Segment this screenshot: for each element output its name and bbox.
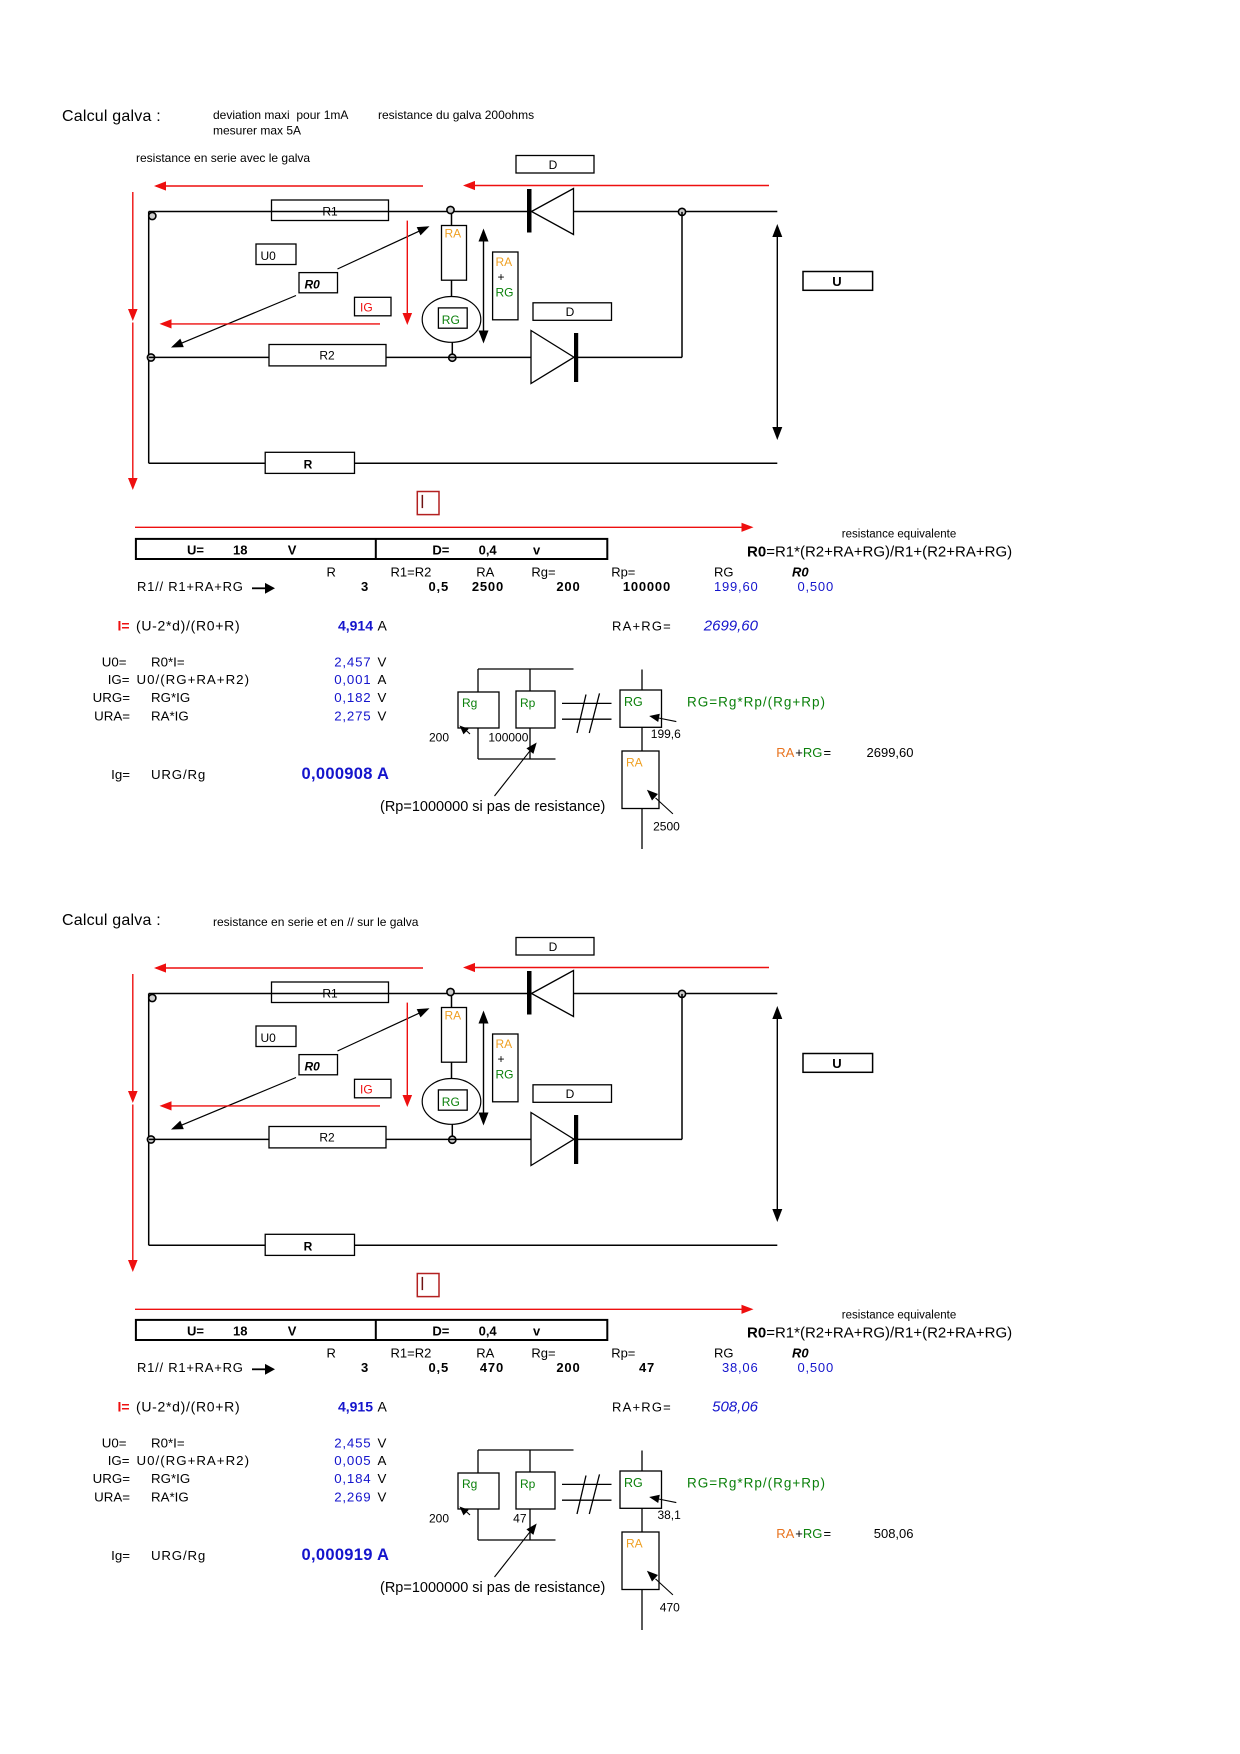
red arrow IG vertical — [406, 1003, 408, 1096]
node top-center — [447, 206, 454, 213]
long pointer to Rp — [495, 748, 533, 796]
diode D1 cathode bar — [527, 189, 532, 233]
svg-text:Rp: Rp — [520, 1477, 536, 1491]
parallel symbol — [562, 702, 612, 704]
svg-text:RG: RG — [714, 1346, 734, 1361]
red current arrow top-left — [156, 967, 423, 969]
svg-text:Rp: Rp — [520, 696, 536, 710]
red current arrow bottom — [135, 1308, 750, 1310]
svg-text:Ig=: Ig= — [111, 767, 130, 782]
svg-text:0,4: 0,4 — [479, 543, 498, 558]
svg-text:deviation maxi pour 1mA: deviation maxi pour 1mA — [213, 108, 348, 122]
red current arrow top-left — [156, 185, 423, 187]
svg-text:URG=: URG= — [93, 1471, 131, 1486]
svg-text:URG=: URG= — [93, 690, 131, 705]
resistor Rp — [516, 1472, 555, 1509]
svg-text:U0: U0 — [261, 249, 277, 263]
svg-text:v: v — [533, 1324, 541, 1339]
node left-mid — [147, 354, 154, 361]
svg-text:R0: R0 — [792, 1346, 809, 1361]
svg-text:0,005: 0,005 — [334, 1453, 371, 1468]
svg-text:RG: RG — [624, 695, 643, 709]
resistor RA — [442, 226, 467, 281]
label box I red — [417, 1274, 439, 1297]
svg-text:RA+RG=: RA+RG= — [612, 619, 672, 634]
measure arrow U — [776, 1009, 778, 1219]
label box D bottom — [533, 1085, 612, 1103]
svg-text:I=: I= — [118, 1399, 130, 1415]
svg-text:2699,60: 2699,60 — [867, 745, 914, 760]
label box U — [803, 272, 873, 291]
svg-text:IG=: IG= — [108, 1453, 130, 1468]
svg-text:200: 200 — [429, 731, 449, 745]
wire R2 row — [149, 1138, 269, 1140]
svg-text:18: 18 — [233, 543, 247, 558]
svg-text:RA: RA — [445, 1009, 462, 1023]
label box R0 — [299, 1055, 338, 1075]
svg-text:0,000908 A: 0,000908 A — [302, 765, 390, 783]
svg-text:+: + — [498, 270, 505, 284]
diode D1 cathode bar — [527, 971, 532, 1015]
svg-text:4,915: 4,915 — [338, 1399, 373, 1415]
svg-text:IG: IG — [360, 301, 373, 315]
svg-text:R1// R1+RA+RG: R1// R1+RA+RG — [137, 1360, 244, 1375]
svg-text:0,500: 0,500 — [797, 1360, 834, 1375]
measure arrow U — [776, 227, 778, 437]
svg-text:RA*IG: RA*IG — [151, 709, 189, 724]
resistor Rp — [516, 691, 555, 728]
mini wire top — [478, 668, 574, 670]
svg-text:V: V — [288, 543, 297, 558]
wire left vertical — [148, 212, 150, 464]
svg-text:2699,60: 2699,60 — [703, 618, 759, 635]
svg-text:(Rp=1000000 si pas de resistan: (Rp=1000000 si pas de resistance) — [380, 1580, 605, 1596]
U D value box — [136, 539, 607, 559]
label box D top — [516, 156, 594, 174]
measure arrow RA+RG — [483, 1013, 485, 1123]
mini wire bottom — [478, 758, 556, 760]
svg-text:V: V — [378, 690, 387, 705]
svg-text:RG: RG — [803, 1526, 823, 1541]
svg-text:R1: R1 — [322, 987, 338, 1001]
resistor R1 — [272, 982, 389, 1003]
svg-text:IG: IG — [360, 1083, 373, 1097]
svg-text:URG/Rg: URG/Rg — [151, 767, 206, 782]
node top-right — [678, 208, 685, 215]
galvanometer RG box — [438, 308, 467, 328]
resistor RA equivalent — [622, 751, 659, 809]
svg-text:resistance equivalente: resistance equivalente — [842, 1310, 956, 1322]
wire top — [149, 211, 527, 213]
measure arrow RA+RG — [483, 231, 485, 341]
wire right vertical — [681, 212, 683, 358]
svg-text:resistance du galva 200ohms: resistance du galva 200ohms — [378, 108, 534, 122]
svg-text:0,184: 0,184 — [334, 1471, 371, 1486]
svg-text:R1=R2: R1=R2 — [391, 1346, 432, 1361]
wire below RA — [641, 1590, 643, 1631]
svg-text:2,455: 2,455 — [334, 1436, 371, 1451]
red arrow left lower segment — [132, 323, 134, 479]
svg-text:RA: RA — [476, 565, 494, 580]
svg-text:Rg=: Rg= — [531, 565, 555, 580]
svg-text:V: V — [378, 1490, 387, 1505]
svg-text:A: A — [378, 1453, 387, 1468]
svg-text:R1: R1 — [322, 205, 338, 219]
resistor R2 — [269, 1127, 386, 1148]
resistor RG equivalent — [641, 670, 643, 691]
svg-text:2,275: 2,275 — [334, 709, 371, 724]
pointer to RG — [656, 718, 676, 722]
mini stubs top — [477, 1450, 479, 1473]
wire RG to RA — [641, 727, 643, 751]
red current arrow bottom — [135, 526, 750, 528]
pointer to Rg — [464, 729, 470, 735]
svg-text:RG: RG — [442, 313, 460, 327]
svg-text:R1=R2: R1=R2 — [391, 565, 432, 580]
diode D2 triangle — [531, 331, 574, 384]
label box I red — [417, 492, 439, 515]
svg-text:RA: RA — [626, 756, 643, 770]
svg-text:Rp=: Rp= — [611, 1346, 635, 1361]
svg-text:D=: D= — [432, 1324, 449, 1339]
wire stub to RA — [451, 214, 453, 226]
svg-text:+: + — [795, 1526, 803, 1541]
svg-text:U=: U= — [187, 543, 204, 558]
svg-text:R0*I=: R0*I= — [151, 1436, 185, 1451]
svg-text:D: D — [549, 158, 558, 172]
red current arrow top-right — [465, 185, 769, 187]
svg-text:2500: 2500 — [653, 820, 680, 834]
wire galvanometer to node — [451, 1124, 453, 1135]
svg-text:=: = — [824, 1526, 832, 1541]
wire RG to RA — [641, 1508, 643, 1532]
mini stubs bottom — [477, 728, 479, 759]
mini stubs top — [477, 669, 479, 692]
pointer to Rg — [464, 1510, 470, 1516]
svg-text:R: R — [327, 1346, 336, 1361]
svg-text:A: A — [378, 618, 388, 634]
node bottom-center — [449, 1136, 456, 1143]
svg-text:200: 200 — [556, 579, 580, 594]
svg-text:200: 200 — [429, 1512, 449, 1526]
label box D top — [516, 938, 594, 956]
svg-text:R1// R1+RA+RG: R1// R1+RA+RG — [137, 579, 244, 594]
label box U0 — [256, 244, 296, 265]
svg-text:RG: RG — [624, 1476, 643, 1490]
svg-text:A: A — [378, 1399, 388, 1415]
svg-text:38,1: 38,1 — [657, 1508, 681, 1522]
red arrow left upper segment — [132, 974, 134, 1092]
svg-text:0,001: 0,001 — [334, 672, 371, 687]
node top-right — [678, 990, 685, 997]
svg-text:0,000919 A: 0,000919 A — [302, 1546, 390, 1564]
svg-text:508,06: 508,06 — [874, 1526, 914, 1541]
svg-text:Rp=: Rp= — [611, 565, 635, 580]
resistor R1 — [272, 200, 389, 221]
svg-text:A: A — [378, 672, 387, 687]
wire R2 row — [149, 356, 269, 358]
svg-text:100000: 100000 — [488, 731, 528, 745]
svg-text:RA: RA — [445, 227, 462, 241]
diode D2 triangle — [531, 1113, 574, 1166]
svg-text:0,4: 0,4 — [479, 1324, 498, 1339]
svg-text:URG/Rg: URG/Rg — [151, 1548, 206, 1563]
svg-text:R0: R0 — [792, 565, 809, 580]
wire below RA — [641, 809, 643, 850]
red arrow IG horizontal — [162, 1105, 380, 1107]
svg-text:199,60: 199,60 — [714, 579, 759, 594]
pointer arrow R0 to lower node — [180, 296, 296, 344]
svg-text:D: D — [549, 940, 558, 954]
svg-text:Rg: Rg — [462, 1477, 477, 1491]
svg-text:U=: U= — [187, 1324, 204, 1339]
svg-text:470: 470 — [480, 1360, 504, 1375]
svg-text:R0: R0 — [305, 278, 321, 292]
svg-text:(Rp=1000000 si pas de resistan: (Rp=1000000 si pas de resistance) — [380, 799, 605, 815]
label box RA+RG — [493, 1034, 518, 1102]
resistor R — [265, 1234, 354, 1255]
red arrow IG horizontal — [162, 323, 380, 325]
diode D2 cathode bar — [574, 1115, 578, 1164]
resistor Rg — [458, 692, 499, 728]
svg-text:R2: R2 — [319, 1131, 335, 1145]
svg-text:R: R — [304, 458, 313, 472]
svg-text:Ig=: Ig= — [111, 1548, 130, 1563]
svg-text:v: v — [533, 543, 541, 558]
svg-text:4,914: 4,914 — [338, 618, 373, 634]
galvanometer circle — [422, 1079, 481, 1125]
galvanometer circle — [422, 297, 481, 343]
diode D1 triangle — [532, 971, 574, 1017]
svg-text:RG=Rg*Rp/(Rg+Rp): RG=Rg*Rp/(Rg+Rp) — [687, 695, 826, 710]
svg-text:RA: RA — [626, 1537, 643, 1551]
galvanometer RG box — [438, 1090, 467, 1110]
mini stubs bottom — [477, 1509, 479, 1540]
U D value box — [136, 1320, 607, 1340]
svg-text:47: 47 — [639, 1360, 655, 1375]
svg-text:=: = — [824, 745, 832, 760]
svg-text:V: V — [378, 709, 387, 724]
svg-text:R: R — [327, 565, 336, 580]
label box U0 — [256, 1026, 296, 1047]
svg-text:Calcul galva :: Calcul galva : — [62, 108, 161, 125]
svg-text:RA+RG=: RA+RG= — [612, 1400, 672, 1415]
svg-text:R0=R1*(R2+RA+RG)/R1+(R2+RA+RG): R0=R1*(R2+RA+RG)/R1+(R2+RA+RG) — [747, 1325, 1012, 1342]
svg-text:RA: RA — [776, 1526, 794, 1541]
svg-text:470: 470 — [660, 1601, 680, 1615]
wire galvanometer to node — [451, 342, 453, 353]
svg-text:RG*IG: RG*IG — [151, 690, 190, 705]
pointer arrow R0 to upper node — [338, 230, 422, 269]
svg-text:38,06: 38,06 — [722, 1360, 759, 1375]
svg-text:0,5: 0,5 — [429, 579, 449, 594]
svg-text:2500: 2500 — [472, 579, 504, 594]
pointer to RG — [656, 1499, 676, 1503]
svg-text:D: D — [566, 305, 575, 319]
long pointer to Rp — [495, 1529, 533, 1577]
svg-text:47: 47 — [513, 1512, 527, 1526]
svg-text:resistance equivalente: resistance equivalente — [842, 529, 956, 541]
pointer to RA — [656, 1579, 673, 1595]
svg-text:V: V — [378, 1436, 387, 1451]
diode D1 triangle — [532, 189, 574, 235]
wire stub to RA — [451, 996, 453, 1008]
wire bottom — [149, 462, 266, 464]
svg-text:RA: RA — [776, 745, 794, 760]
svg-text:U0=: U0= — [102, 655, 127, 670]
svg-text:RG: RG — [714, 565, 734, 580]
svg-text:U0/(RG+RA+R2): U0/(RG+RA+R2) — [137, 672, 251, 687]
svg-text:+: + — [795, 745, 803, 760]
label box D bottom — [533, 303, 612, 321]
svg-text:RG: RG — [803, 745, 823, 760]
svg-text:U: U — [832, 274, 841, 289]
svg-text:+: + — [498, 1052, 505, 1066]
svg-text:I=: I= — [118, 618, 130, 634]
wire top — [149, 993, 527, 995]
node bottom-center — [449, 354, 456, 361]
node top-left — [149, 212, 156, 219]
svg-text:RG: RG — [496, 286, 514, 300]
svg-text:V: V — [288, 1324, 297, 1339]
svg-text:RG: RG — [442, 1095, 460, 1109]
label box IG — [355, 297, 392, 316]
svg-text:R0=R1*(R2+RA+RG)/R1+(R2+RA+RG): R0=R1*(R2+RA+RG)/R1+(R2+RA+RG) — [747, 544, 1012, 561]
svg-text:2,457: 2,457 — [334, 655, 371, 670]
parallel symbol — [562, 1483, 612, 1485]
mini wire bottom — [478, 1539, 556, 1541]
svg-text:18: 18 — [233, 1324, 247, 1339]
wire RA to galvanometer — [451, 280, 453, 296]
svg-text:R0: R0 — [305, 1060, 321, 1074]
label box U — [803, 1054, 873, 1073]
svg-text:Calcul galva :: Calcul galva : — [62, 912, 161, 929]
svg-text:RA: RA — [496, 255, 513, 269]
svg-text:RG*IG: RG*IG — [151, 1471, 190, 1486]
wire left vertical — [148, 994, 150, 1246]
wire RA to galvanometer — [451, 1062, 453, 1078]
node left-mid — [147, 1136, 154, 1143]
red current arrow top-right — [465, 967, 769, 969]
svg-text:RA*IG: RA*IG — [151, 1490, 189, 1505]
svg-text:RA: RA — [496, 1037, 513, 1051]
svg-text:URA=: URA= — [94, 709, 130, 724]
svg-text:Rg: Rg — [462, 696, 477, 710]
resistor R2 — [269, 345, 386, 366]
red arrow left upper segment — [132, 192, 134, 310]
svg-text:0,5: 0,5 — [429, 1360, 449, 1375]
resistor R — [265, 452, 354, 473]
resistor RA equivalent — [622, 1532, 659, 1590]
node top-center — [447, 988, 454, 995]
svg-text:V: V — [378, 655, 387, 670]
label box RA+RG — [493, 252, 518, 320]
pointer to RA — [656, 798, 673, 814]
svg-text:U0: U0 — [261, 1031, 277, 1045]
svg-text:U0=: U0= — [102, 1436, 127, 1451]
svg-text:2,269: 2,269 — [334, 1490, 371, 1505]
svg-text:D=: D= — [432, 543, 449, 558]
svg-text:3: 3 — [361, 579, 369, 594]
svg-text:(U-2*d)/(R0+R): (U-2*d)/(R0+R) — [136, 618, 240, 634]
svg-text:100000: 100000 — [623, 579, 671, 594]
svg-text:RG: RG — [496, 1068, 514, 1082]
red arrow IG vertical — [406, 221, 408, 314]
svg-text:V: V — [378, 1471, 387, 1486]
svg-text:R0*I=: R0*I= — [151, 655, 185, 670]
resistor RA — [442, 1008, 467, 1063]
svg-text:R2: R2 — [319, 349, 335, 363]
svg-text:RG=Rg*Rp/(Rg+Rp): RG=Rg*Rp/(Rg+Rp) — [687, 1476, 826, 1491]
svg-text:URA=: URA= — [94, 1490, 130, 1505]
svg-text:200: 200 — [556, 1360, 580, 1375]
svg-text:resistance en serie et en // s: resistance en serie et en // sur le galv… — [213, 915, 419, 929]
svg-text:D: D — [566, 1087, 575, 1101]
svg-text:IG=: IG= — [108, 672, 130, 687]
svg-text:resistance en serie avec le ga: resistance en serie avec le galva — [136, 151, 310, 165]
svg-text:199,6: 199,6 — [651, 727, 681, 741]
svg-text:0,182: 0,182 — [334, 690, 371, 705]
svg-text:R: R — [304, 1240, 313, 1254]
svg-text:3: 3 — [361, 1360, 369, 1375]
node top-left — [149, 994, 156, 1001]
svg-text:RA: RA — [476, 1346, 494, 1361]
pointer arrow R0 to upper node — [338, 1012, 422, 1051]
wire bottom — [149, 1244, 266, 1246]
svg-text:0,500: 0,500 — [797, 579, 834, 594]
resistor RG equivalent — [641, 1451, 643, 1472]
diode D2 cathode bar — [574, 333, 578, 382]
resistor Rg — [458, 1473, 499, 1509]
svg-text:mesurer max 5A: mesurer max 5A — [213, 124, 301, 138]
svg-text:U0/(RG+RA+R2): U0/(RG+RA+R2) — [137, 1453, 251, 1468]
svg-text:508,06: 508,06 — [712, 1399, 759, 1416]
svg-text:(U-2*d)/(R0+R): (U-2*d)/(R0+R) — [136, 1399, 240, 1415]
red arrow left lower segment — [132, 1105, 134, 1261]
pointer arrow R0 to lower node — [180, 1078, 296, 1126]
svg-text:Rg=: Rg= — [531, 1346, 555, 1361]
label box R0 — [299, 273, 338, 293]
mini wire top — [478, 1449, 574, 1451]
label box IG — [355, 1079, 392, 1098]
wire right vertical — [681, 994, 683, 1140]
svg-text:U: U — [832, 1056, 841, 1071]
